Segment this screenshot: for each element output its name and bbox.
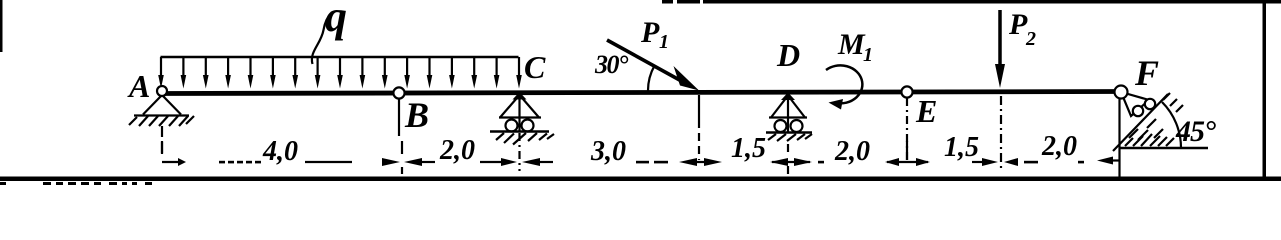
- svg-text:2,0: 2,0: [1041, 131, 1077, 162]
- svg-text:A: A: [127, 68, 150, 104]
- svg-text:4,0: 4,0: [262, 136, 298, 167]
- svg-text:1: 1: [863, 44, 873, 66]
- svg-text:2,0: 2,0: [834, 136, 870, 167]
- svg-text:F: F: [1134, 53, 1159, 93]
- svg-text:3,0: 3,0: [590, 136, 626, 167]
- svg-text:2: 2: [1025, 28, 1036, 50]
- svg-text:1,5: 1,5: [944, 132, 979, 163]
- svg-text:2,0: 2,0: [439, 135, 475, 166]
- svg-text:q: q: [325, 0, 347, 41]
- svg-text:30°: 30°: [594, 50, 629, 79]
- svg-text:C: C: [524, 49, 546, 85]
- svg-text:45°: 45°: [1175, 115, 1216, 148]
- svg-text:1,5: 1,5: [731, 133, 766, 164]
- svg-text:P: P: [640, 16, 660, 49]
- svg-text:M: M: [837, 28, 866, 61]
- svg-text:B: B: [404, 95, 429, 135]
- svg-text:1: 1: [659, 31, 669, 53]
- svg-text:E: E: [915, 93, 937, 129]
- svg-text:D: D: [776, 37, 800, 73]
- svg-text:P: P: [1008, 8, 1028, 41]
